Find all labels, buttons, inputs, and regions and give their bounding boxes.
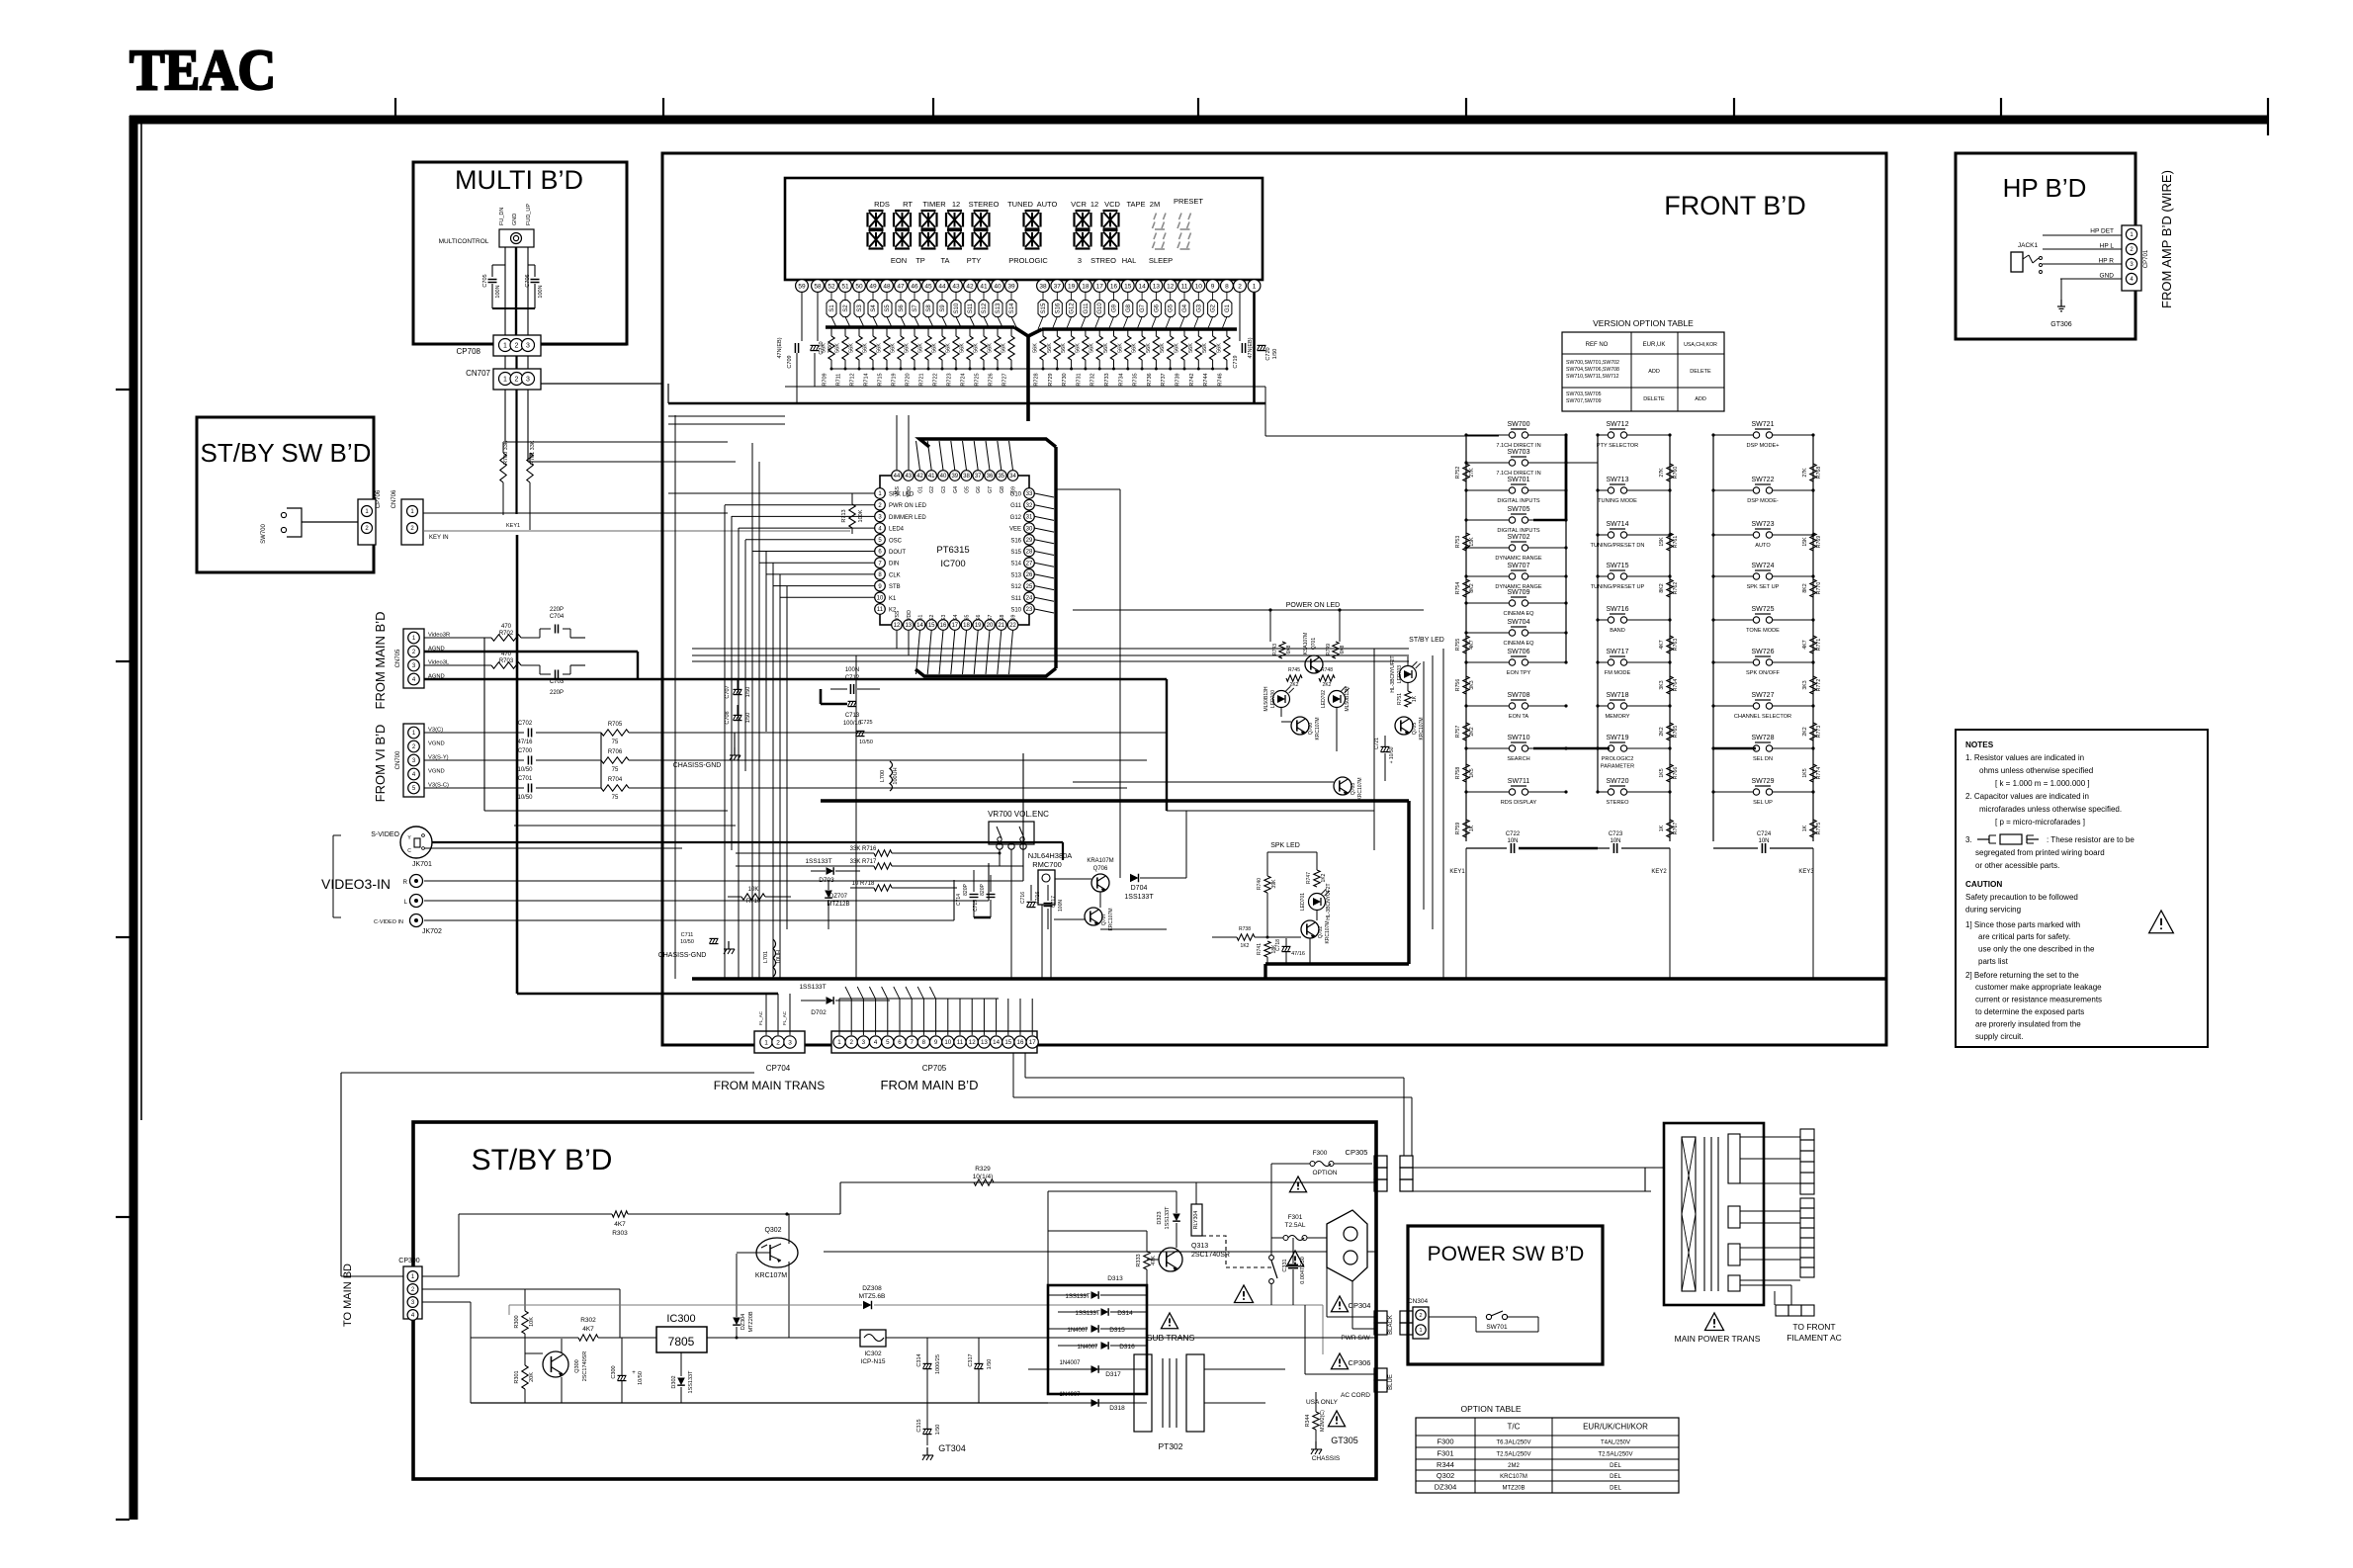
svg-text:10K: 10K: [529, 1317, 535, 1327]
NOTES box: [1956, 730, 2208, 1047]
transistor Q705 KRC107M: [1395, 717, 1425, 740]
svg-text:parts list: parts list: [1978, 957, 2009, 966]
relay RLY304: [1191, 1182, 1274, 1267]
resistor R701 33K: [527, 440, 536, 530]
svg-text:20: 20: [987, 623, 994, 629]
svg-text:22: 22: [1009, 623, 1016, 629]
svg-text:to determine the exposed p: to determine the exposed parts: [1975, 1007, 2084, 1016]
connector CP701: [2122, 225, 2149, 291]
resistor R700 33K: [500, 440, 509, 515]
svg-text:58: 58: [814, 283, 822, 290]
svg-text:C704: C704: [550, 614, 565, 620]
svg-text:C716: C716: [1020, 892, 1026, 904]
svg-text:1] Since those parts marked: 1] Since those parts marked with: [1965, 920, 2080, 929]
svg-text:S7: S7: [913, 305, 918, 312]
svg-text:C717: C717: [1051, 896, 1057, 908]
svg-text:C721: C721: [1374, 738, 1380, 749]
resistor R300 10K: [422, 1289, 620, 1338]
svg-text:S16: S16: [1010, 538, 1021, 544]
capacitor C315 1/50: [916, 1403, 941, 1445]
svg-text:AC CORD: AC CORD: [1341, 1392, 1370, 1399]
svg-text:SW708: SW708: [1508, 692, 1530, 699]
switch SW703: [1464, 449, 1567, 477]
svg-text:R711: R711: [836, 374, 842, 387]
svg-text:SW703: SW703: [1508, 449, 1530, 456]
svg-text:4: 4: [874, 1039, 878, 1046]
svg-text:DOUT: DOUT: [889, 550, 906, 556]
encoder VR700 VOL.ENC: [988, 810, 1049, 979]
svg-text:10N: 10N: [1758, 838, 1769, 844]
label VIDEO3-IN: [321, 835, 391, 917]
svg-text:G2: G2: [929, 486, 935, 493]
svg-text:47K: 47K: [1151, 1256, 1157, 1265]
svg-text:SW701: SW701: [1508, 477, 1530, 483]
svg-text:R732: R732: [1090, 373, 1096, 386]
switch SW709: [1464, 589, 1567, 617]
svg-text:R300: R300: [514, 1315, 520, 1328]
svg-text:TP: TP: [915, 256, 925, 265]
svg-text:+: +: [632, 1370, 636, 1376]
svg-text:+ 10/50: + 10/50: [1389, 746, 1395, 763]
svg-text:R719: R719: [892, 373, 898, 386]
switch SW722: [1711, 477, 1814, 504]
svg-text:47/16: 47/16: [517, 740, 533, 745]
svg-text:3: 3: [862, 1039, 866, 1046]
svg-text:2] Before returning the set: 2] Before returning the set to the: [1965, 971, 2079, 980]
resistors R760-R767 column2: [1659, 464, 1679, 481]
svg-text:PTY: PTY: [967, 256, 982, 265]
svg-text:DYNAMIC RANGE: DYNAMIC RANGE: [1495, 556, 1542, 562]
svg-text:100N: 100N: [495, 285, 501, 298]
svg-text:2K2: 2K2: [1290, 682, 1299, 688]
svg-text:R729: R729: [1048, 373, 1054, 386]
svg-text:SW706: SW706: [1508, 649, 1530, 655]
svg-text:G4: G4: [953, 486, 959, 493]
svg-text:1/50: 1/50: [987, 1359, 993, 1370]
svg-text:R329: R329: [975, 1166, 991, 1173]
svg-text:SW726: SW726: [1752, 649, 1775, 655]
svg-text:S1: S1: [829, 305, 835, 312]
svg-text:SEARCH: SEARCH: [1507, 756, 1529, 762]
resistor R718 10: [850, 881, 957, 891]
resistor R344 M2M2(C): [1305, 1392, 1346, 1441]
svg-text:VCD: VCD: [1104, 200, 1120, 209]
svg-text:2K2: 2K2: [1323, 682, 1332, 688]
switch SW701: [1429, 1311, 1538, 1332]
switch SW728: [1711, 735, 1814, 762]
svg-text:R724: R724: [961, 373, 967, 386]
connector CP306: [1331, 1353, 1394, 1399]
resistor R713 100K: [668, 493, 874, 534]
svg-text:CP300: CP300: [398, 1258, 420, 1264]
switch SW718: [1596, 692, 1671, 720]
resistor R333 47K: [1048, 1231, 1157, 1285]
svg-text:R733: R733: [1104, 373, 1110, 386]
svg-text:1SS133T: 1SS133T: [1165, 1206, 1171, 1230]
svg-text:DIGITAL INPUTS: DIGITAL INPUTS: [1497, 498, 1539, 504]
svg-text:MTZ5.6B: MTZ5.6B: [859, 1293, 886, 1300]
svg-text:Q702: Q702: [1318, 926, 1324, 938]
wire thick front bus: [821, 801, 1409, 979]
display unit box: [785, 178, 1263, 280]
svg-text:S12: S12: [982, 303, 988, 313]
svg-text:SW724: SW724: [1752, 563, 1775, 569]
svg-text:R738: R738: [1239, 926, 1251, 932]
svg-text:G1: G1: [1225, 304, 1231, 312]
warning triangle interlock: [1235, 1285, 1254, 1303]
connector CN304: [1408, 1298, 1429, 1339]
svg-text:3K3: 3K3: [1802, 680, 1808, 689]
svg-text:OPTION: OPTION: [1313, 1170, 1338, 1176]
capacitor C300 10/50: [611, 1338, 644, 1403]
svg-text:TUNING/PRESET DN: TUNING/PRESET DN: [1591, 543, 1645, 549]
svg-text:11: 11: [1181, 283, 1188, 290]
svg-text:1: 1: [1253, 283, 1257, 290]
capacitor C704 220P: [521, 607, 585, 638]
svg-text:R748: R748: [1321, 667, 1333, 673]
svg-text:10K: 10K: [748, 887, 759, 893]
HP signal labels + wires: [2043, 228, 2122, 280]
switch SW707: [1464, 563, 1567, 590]
svg-text:VDD: VDD: [907, 610, 913, 621]
svg-text:R766: R766: [1673, 767, 1679, 780]
svg-text:VGND: VGND: [428, 769, 445, 775]
svg-text:40: 40: [940, 474, 947, 479]
svg-text:C710: C710: [819, 341, 825, 354]
svg-text:SW700: SW700: [261, 524, 267, 544]
svg-text:R712: R712: [850, 373, 856, 386]
svg-text:R743: R743: [1272, 644, 1278, 655]
svg-text:R714: R714: [864, 373, 870, 386]
switch SW723: [1711, 521, 1814, 549]
svg-text:44: 44: [938, 283, 946, 290]
transistor Q706 KRA107M: [1055, 858, 1114, 892]
svg-text:BLACK: BLACK: [1388, 1315, 1394, 1335]
svg-text:FRONT B’D: FRONT B’D: [1664, 191, 1806, 220]
svg-text:VSS: VSS: [895, 610, 901, 621]
connector CP704: [714, 1031, 825, 1092]
svg-text:56K: 56K: [905, 343, 911, 353]
svg-text:OSC: OSC: [889, 538, 903, 544]
transistor Q707 KRC107M: [1054, 892, 1167, 931]
svg-text:PWR ON LED: PWR ON LED: [889, 503, 927, 509]
resistor R702 470: [424, 624, 521, 641]
svg-text:G11: G11: [1010, 503, 1022, 509]
svg-text:2: 2: [849, 1039, 853, 1046]
svg-text:4K7: 4K7: [1659, 640, 1665, 649]
connector CN707: [466, 356, 662, 390]
svg-text:220P: 220P: [550, 690, 564, 696]
wire CP704 fan: [517, 535, 790, 1035]
svg-text:17: 17: [951, 623, 958, 629]
svg-text:S4: S4: [871, 305, 877, 312]
svg-text:CP704: CP704: [766, 1064, 791, 1073]
svg-text:S11: S11: [968, 303, 974, 313]
svg-text:CN304: CN304: [1408, 1298, 1429, 1305]
svg-text:L701: L701: [763, 951, 769, 963]
svg-text:G2: G2: [1211, 304, 1217, 312]
svg-text:S15: S15: [1041, 303, 1047, 313]
svg-text:100K: 100K: [858, 509, 864, 522]
transistor Q702 KRC107M: [1301, 911, 1331, 944]
switch SW702: [1464, 534, 1567, 562]
wire video loops: [424, 638, 1063, 920]
svg-text:56K: 56K: [849, 343, 855, 353]
svg-text:56K: 56K: [1075, 343, 1081, 353]
svg-text:FROM MAIN B’D: FROM MAIN B’D: [881, 1078, 979, 1092]
svg-text:R749: R749: [1326, 644, 1332, 655]
svg-text:3K3: 3K3: [1659, 680, 1665, 689]
resistor R748 2K2: [1319, 667, 1335, 688]
svg-text:D317: D317: [1105, 1371, 1121, 1378]
svg-text:DELETE: DELETE: [1643, 396, 1665, 402]
svg-text:CINEMA EQ: CINEMA EQ: [1503, 611, 1534, 617]
svg-text:SW728: SW728: [1752, 735, 1775, 741]
ground CHASISS-GND upper: [673, 733, 741, 769]
svg-text:D316: D316: [1119, 1344, 1135, 1350]
svg-text:1K5: 1K5: [1659, 768, 1665, 777]
svg-text:S7: S7: [988, 615, 994, 621]
svg-text:10UH: 10UH: [776, 950, 782, 964]
svg-text:Q300: Q300: [574, 1359, 580, 1372]
svg-text:CHASISS-GND: CHASISS-GND: [673, 762, 722, 769]
svg-text:12: 12: [969, 1039, 976, 1046]
svg-text:KEY3: KEY3: [1798, 869, 1814, 875]
capacitor C707 1/50: [725, 679, 751, 699]
svg-text:R301: R301: [514, 1370, 520, 1383]
svg-text:RLY304: RLY304: [1193, 1211, 1199, 1229]
svg-text:BAND: BAND: [1610, 628, 1625, 634]
svg-text:AUTO: AUTO: [1755, 543, 1771, 549]
LED701 HL-3BCNYUF2T: [1300, 883, 1332, 919]
svg-text:1000/25: 1000/25: [935, 1354, 941, 1374]
svg-text:TO FRONT: TO FRONT: [1792, 1322, 1835, 1332]
ground GT304: [922, 1443, 966, 1460]
resistor R745 2K2: [1286, 667, 1302, 688]
svg-text:C: C: [407, 848, 411, 854]
svg-text:R769: R769: [1816, 536, 1822, 549]
svg-text:CAUTION: CAUTION: [1965, 880, 2002, 889]
svg-text:CINEMA EQ: CINEMA EQ: [1503, 641, 1534, 647]
svg-text:11: 11: [877, 607, 884, 613]
svg-text:PARAMETER: PARAMETER: [1601, 764, 1634, 770]
svg-text:G12: G12: [1010, 515, 1022, 521]
ground GT305 CHASSIS: [1311, 1436, 1358, 1462]
wire encoder to CP708: [505, 247, 528, 335]
resistor R743 6K8: [1272, 642, 1292, 658]
svg-text:9: 9: [1211, 283, 1215, 290]
capacitor C724 10N: [1713, 831, 1814, 979]
svg-text:R774: R774: [1816, 767, 1822, 780]
svg-text:FL_AC: FL_AC: [782, 1010, 787, 1025]
svg-text:R758: R758: [1455, 767, 1461, 780]
svg-text:KRC107M: KRC107M: [1315, 717, 1321, 740]
svg-text:R764: R764: [1673, 679, 1679, 692]
svg-text:R344: R344: [1305, 1415, 1311, 1428]
switch SW708: [1464, 692, 1567, 720]
svg-text:R761: R761: [1673, 536, 1679, 549]
svg-text:G3: G3: [941, 486, 947, 493]
resistor R741 18K: [1257, 941, 1277, 964]
svg-text:DIMMER LED: DIMMER LED: [889, 515, 926, 521]
svg-text:PROLOGIC2: PROLOGIC2: [1602, 756, 1634, 762]
svg-text:SW711: SW711: [1508, 778, 1530, 785]
svg-text:1: 1: [503, 343, 507, 350]
svg-text:T2.5AL: T2.5AL: [1285, 1222, 1306, 1229]
svg-text:R741: R741: [1257, 943, 1263, 955]
svg-text:R740: R740: [1257, 878, 1263, 890]
svg-text:C317: C317: [968, 1353, 974, 1366]
svg-text:EON: EON: [891, 256, 907, 265]
rotary encoder MULTICONTROL: [439, 204, 534, 247]
svg-text:L700: L700: [880, 770, 886, 782]
capacitor C721 10/50: [1374, 736, 1395, 781]
svg-text:SW727: SW727: [1752, 692, 1775, 699]
svg-text:C315: C315: [916, 1419, 922, 1432]
svg-text:75: 75: [612, 795, 619, 801]
transistor Q302 KRC107M: [737, 1214, 798, 1338]
svg-text:TAPE: TAPE: [1126, 200, 1145, 209]
block MULTI B'D: [413, 162, 627, 344]
display bus thick: [826, 317, 1237, 422]
svg-text:KSA107M: KSA107M: [1303, 633, 1309, 655]
svg-text:35: 35: [998, 474, 1004, 479]
svg-text:G7: G7: [988, 486, 994, 493]
svg-text:10N: 10N: [1610, 838, 1620, 844]
switch SW714: [1591, 521, 1672, 549]
svg-text:SW718: SW718: [1607, 692, 1629, 699]
svg-text:G11: G11: [1084, 303, 1089, 314]
svg-text:DEL: DEL: [1610, 1474, 1621, 1480]
svg-text:10: 10: [877, 595, 884, 601]
svg-text:14: 14: [993, 1039, 1000, 1046]
svg-text:IC700: IC700: [940, 559, 965, 569]
svg-text:G8: G8: [1000, 486, 1005, 493]
svg-text:IC300: IC300: [666, 1313, 695, 1325]
svg-text:6K8: 6K8: [1340, 645, 1346, 653]
svg-text:FUD_UP: FUD_UP: [526, 204, 532, 225]
svg-text:S9: S9: [1011, 615, 1017, 621]
capacitor C701 10/50: [424, 776, 601, 801]
svg-text:49: 49: [869, 283, 877, 290]
svg-text:AUTO: AUTO: [1037, 200, 1058, 209]
svg-text:DEL: DEL: [1610, 1486, 1621, 1492]
svg-text:S5: S5: [965, 615, 971, 621]
svg-text:R723: R723: [947, 373, 953, 386]
svg-text:R734: R734: [1118, 373, 1124, 386]
svg-text:JK701: JK701: [412, 861, 432, 868]
svg-text:C300: C300: [611, 1365, 617, 1378]
svg-text:GND: GND: [512, 214, 518, 225]
svg-text:17: 17: [1096, 283, 1104, 290]
svg-text:56K: 56K: [1146, 343, 1152, 353]
switch SW724: [1711, 563, 1814, 590]
label FROM AMP B'D (WIRE): [2159, 170, 2174, 308]
svg-text:S3: S3: [941, 615, 947, 621]
resistor R747 1K2: [1306, 870, 1327, 887]
connector CN705 FROM MAIN B'D: [373, 612, 450, 710]
svg-text:DZ304: DZ304: [1435, 1483, 1457, 1492]
wire mains to trans: [1413, 1168, 1664, 1191]
svg-text:D703: D703: [819, 877, 834, 884]
svg-text:STEREO: STEREO: [969, 200, 1000, 209]
svg-text:BLUE: BLUE: [1388, 1374, 1394, 1390]
capacitor C709 47N(EB): [777, 293, 818, 403]
svg-text:75: 75: [612, 767, 619, 773]
svg-text:FROM MAIN B’D: FROM MAIN B’D: [373, 612, 388, 710]
svg-text:47N(EB): 47N(EB): [777, 337, 783, 358]
AC inlet socket: [1327, 1210, 1367, 1281]
resistor R301 20K: [514, 1353, 535, 1403]
svg-text:PT6315: PT6315: [936, 545, 969, 556]
svg-text:100N: 100N: [1058, 900, 1064, 912]
svg-text:100UH: 100UH: [893, 767, 899, 784]
svg-text:STEREO: STEREO: [1606, 800, 1629, 806]
switch SW711: [1464, 778, 1567, 806]
resistor R302 4K7: [422, 1302, 656, 1341]
OPTION TABLE: [1416, 1404, 1679, 1493]
svg-text:USA ONLY: USA ONLY: [1306, 1399, 1339, 1406]
svg-text:100N: 100N: [538, 285, 544, 298]
svg-text:10/50: 10/50: [859, 740, 873, 745]
svg-text:1SS133T: 1SS133T: [688, 1370, 694, 1394]
svg-text:SW704: SW704: [1508, 619, 1530, 626]
svg-text:R771: R771: [1816, 639, 1822, 652]
switch SW729: [1711, 778, 1814, 806]
svg-text:R727: R727: [1002, 373, 1008, 386]
svg-text:R756: R756: [1455, 679, 1461, 692]
svg-text:1/50: 1/50: [1272, 349, 1278, 360]
svg-text:PT302: PT302: [1158, 1441, 1182, 1451]
svg-text:PROLOGIC: PROLOGIC: [1008, 256, 1048, 265]
svg-text:41: 41: [928, 474, 935, 479]
svg-text:R726: R726: [989, 373, 995, 386]
capacitor C317 1/50: [968, 1338, 993, 1403]
svg-text:45: 45: [924, 283, 932, 290]
svg-text:VR700 VOL.ENC: VR700 VOL.ENC: [988, 810, 1049, 819]
svg-text:R721: R721: [919, 373, 925, 386]
svg-text:CP306: CP306: [1349, 1358, 1371, 1367]
resistor R749 6K8: [1326, 642, 1346, 658]
svg-text:1/50: 1/50: [828, 343, 833, 354]
svg-text:14: 14: [916, 623, 923, 629]
svg-text:1: 1: [1419, 1328, 1422, 1334]
LED702 ML50B13H: [1321, 686, 1351, 711]
svg-text:2SC1740SR: 2SC1740SR: [582, 1351, 588, 1382]
svg-text:56K: 56K: [835, 343, 841, 353]
resistor R716 33K: [736, 846, 1002, 856]
svg-text:S8: S8: [1000, 615, 1005, 621]
segment/grid hex labels: [827, 293, 1232, 317]
svg-text:TEAC: TEAC: [130, 38, 276, 102]
connector CP706: [358, 489, 382, 545]
svg-text:NJL64H380A: NJL64H380A: [1028, 851, 1073, 860]
svg-text:R762: R762: [1673, 582, 1679, 595]
svg-text:10 R718: 10 R718: [852, 881, 875, 887]
svg-text:SW729: SW729: [1752, 778, 1775, 785]
svg-text:CN706: CN706: [392, 489, 397, 508]
svg-text:R: R: [403, 880, 408, 886]
svg-text:G8: G8: [1126, 304, 1132, 312]
svg-text:56K: 56K: [918, 343, 924, 353]
diode D703 1SS133T: [805, 858, 860, 884]
svg-text:STREO: STREO: [1090, 256, 1116, 265]
svg-text:42: 42: [916, 474, 923, 479]
wire switch matrix feeds: [1275, 435, 1756, 748]
svg-text:1N4007: 1N4007: [1059, 1392, 1081, 1398]
svg-text:10/50: 10/50: [517, 795, 533, 801]
display 14-segment digits: [868, 211, 1119, 249]
